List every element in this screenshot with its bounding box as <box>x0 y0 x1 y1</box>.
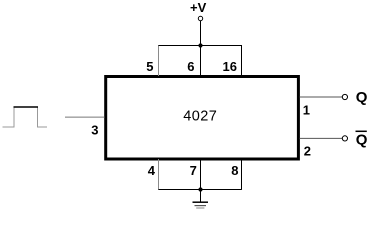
svg-text:16: 16 <box>223 59 237 74</box>
junction dot at +V bus <box>198 43 202 47</box>
junction dot at ground bus <box>198 187 202 191</box>
ground <box>193 190 209 209</box>
svg-text:1: 1 <box>303 102 310 117</box>
wire top supply bus (pins 5,6,16) <box>158 45 242 47</box>
wire pin 7 stub <box>200 159 202 190</box>
wire clock input to pin 3 <box>65 116 105 118</box>
wire pin 1 to Q output <box>300 96 343 98</box>
Q-bar output terminal circle <box>342 136 347 141</box>
svg-text:8: 8 <box>231 163 238 178</box>
clock input pulse waveform <box>3 107 48 127</box>
wire pin 8 stub <box>241 159 243 190</box>
wire pin 5 stub <box>158 46 160 77</box>
overline of Q-bar <box>356 130 367 132</box>
svg-text:4: 4 <box>148 163 156 178</box>
wire from +V terminal down to pin 6 <box>200 21 202 76</box>
svg-text:5: 5 <box>146 59 153 74</box>
Q output terminal circle <box>342 94 347 99</box>
svg-text:2: 2 <box>304 144 311 159</box>
svg-text:3: 3 <box>91 123 98 138</box>
svg-text:Q: Q <box>356 132 368 149</box>
wire pin 4 stub <box>158 159 160 190</box>
svg-text:7: 7 <box>190 163 197 178</box>
pulse top segment <box>14 106 39 108</box>
IC U1 body (4027) <box>106 77 299 160</box>
+V terminal circle <box>198 16 202 20</box>
wire pin 2 to Q-bar output <box>300 137 343 139</box>
svg-text:6: 6 <box>187 59 194 74</box>
wire pin 16 stub <box>241 46 243 77</box>
wire bottom ground bus (pins 4,7,8) <box>158 189 242 191</box>
svg-text:4027: 4027 <box>183 109 217 125</box>
svg-text:+V: +V <box>190 0 207 15</box>
svg-text:Q: Q <box>356 89 368 106</box>
